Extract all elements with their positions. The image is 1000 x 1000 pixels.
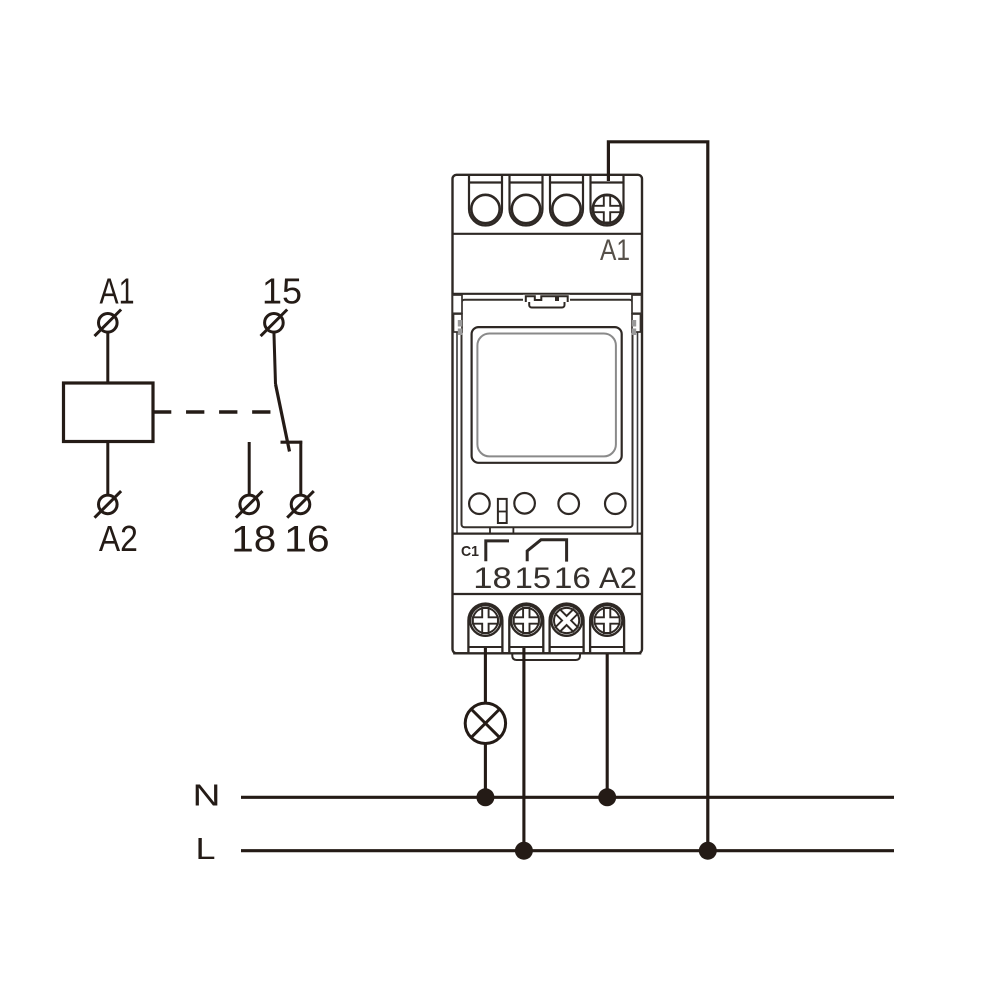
bottom terminal body 15 [509,604,543,654]
device body [453,175,643,654]
front panel top edge [453,293,643,295]
flip lid [462,300,633,528]
lamp E1 [465,703,505,743]
front face side lines [457,295,638,534]
contact 16 bar [281,441,303,444]
top band separator [453,233,643,235]
svg-text:N: N [193,778,221,813]
screw 15 [511,605,542,636]
svg-text:A2: A2 [99,518,138,559]
slider switch [498,499,507,523]
device bottom edge [453,652,641,654]
top terminal circle 2 [512,195,540,223]
screw A2 [592,605,623,636]
wire coil to A2 [106,442,109,496]
DIN clip tab bottom [512,653,580,661]
top terminal slot 3 [550,175,583,226]
right hinge [632,295,642,313]
svg-text:A1: A1 [100,271,135,312]
button 4 [605,493,626,514]
wire A1 terminal to L (top right) [608,142,707,851]
screw 18 [470,605,501,636]
junction lamp-N [476,788,494,806]
svg-text:L: L [196,831,216,866]
svg-text:18: 18 [231,519,276,560]
junction A2-N [598,788,616,806]
svg-text:A2: A2 [599,562,637,595]
dashed actuator link [153,410,271,413]
line N [241,796,894,799]
switch lever 15 [276,384,290,452]
coil A1-A2 [64,383,154,442]
line L [241,849,894,852]
top terminal circle 3 [552,195,580,223]
junction A1wire-L [699,842,717,860]
right clip [632,314,641,335]
wire terminal 15 to L [522,648,525,851]
svg-text:A1: A1 [600,234,630,267]
wire terminal 18 to lamp [484,648,487,703]
lid bottom ticks [490,527,513,533]
display outer frame [472,327,622,463]
screw 16 (cross slot) [549,603,584,638]
label band top separator [453,532,643,534]
button 1 [469,493,490,514]
screw A1 [593,195,621,223]
svg-text:16: 16 [284,519,330,560]
contact 16 wire [299,441,302,496]
wire 15 to pivot [274,332,276,385]
top terminal slot 1 [469,175,502,226]
top terminal slot 4 (A1) [591,175,624,226]
svg-text:15: 15 [262,271,302,312]
terminal 18 [236,491,263,518]
terminal A2 [95,491,122,518]
bottom terminal body 18 [468,604,502,654]
top terminal circle 1 [471,195,499,223]
svg-text:18: 18 [473,562,512,595]
terminal 16 [287,491,314,518]
button 2 [514,493,535,514]
label band bottom separator [453,593,643,595]
contact mark 15-16 [527,540,566,562]
contact mark 18 [486,541,509,561]
terminal 15 [261,310,288,337]
bottom terminal body A2 [590,604,624,654]
svg-text:16: 16 [554,562,591,595]
junction 15-L [515,842,533,860]
wire A1 to coil [106,332,109,384]
left clip [454,314,463,335]
wire lamp to N [484,744,487,798]
display inner frame [477,334,616,457]
left hinge [453,295,463,313]
button 3 [558,493,579,514]
lid latch tab [523,295,570,309]
svg-text:15: 15 [515,562,552,595]
top terminal slot 2 [510,175,543,226]
bottom terminal body 16 [550,604,584,654]
wire terminal A2 to N [606,654,609,797]
terminal A1 [95,310,122,337]
contact 18 wire [248,442,251,495]
svg-text:C1: C1 [461,543,479,560]
